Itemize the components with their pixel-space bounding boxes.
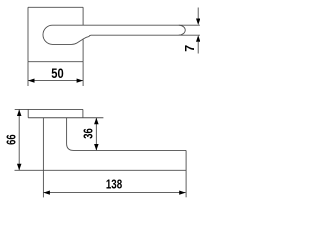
lever grip rounded left cap xyxy=(43,25,53,44)
svg-text:138: 138 xyxy=(106,177,122,191)
lever bar bottom edge with extension to left xyxy=(15,169,187,171)
dimension 36 line xyxy=(95,118,97,151)
lever top edge with extension line to 7-dim xyxy=(53,24,200,26)
dimension 7 leader shafts xyxy=(197,8,199,54)
rosette square right edge (interrupted by lever grip) xyxy=(82,7,84,61)
dimension 138 arrow right xyxy=(179,191,186,195)
rosette square bottom edge xyxy=(28,61,83,63)
svg-text:66: 66 xyxy=(5,134,19,145)
rosette square left edge xyxy=(27,7,29,61)
lever bar rounded end arc xyxy=(179,25,185,35)
dimension 50 arrow right xyxy=(77,79,84,83)
rosette top edge with extension to left xyxy=(15,108,83,110)
dimension 36 arrow up xyxy=(94,118,99,125)
lever bar right end edge with extension down xyxy=(185,150,187,197)
svg-text:50: 50 xyxy=(51,65,64,81)
dimension 138 arrow left xyxy=(43,191,50,195)
extension line from grip left end down to 138 dimension xyxy=(42,118,44,198)
rosette square top edge xyxy=(28,6,83,8)
dimension 7 arrow up xyxy=(196,35,200,42)
dimension 66 arrow down xyxy=(17,164,22,171)
dimension 50 arrow left xyxy=(28,79,35,83)
dimension 7 arrow down xyxy=(196,19,200,26)
dimension 66 arrow up xyxy=(17,109,22,116)
dimension 36 arrow down xyxy=(94,144,99,151)
rosette right edge xyxy=(82,109,84,117)
svg-text:7: 7 xyxy=(183,45,197,52)
dimension 138 line xyxy=(43,192,185,194)
dimension 50 line xyxy=(28,80,83,82)
lever neck left edge with fillet into bar top edge xyxy=(67,118,187,151)
rosette left edge xyxy=(27,109,29,117)
lever grip bottom edge, neck diagonal, bar bottom edge with extension xyxy=(53,35,200,44)
rosette bottom edge with extension to right xyxy=(28,117,103,119)
dimension 66 line xyxy=(18,109,20,170)
svg-text:36: 36 xyxy=(81,128,95,138)
dimension 50 extension lines xyxy=(28,62,83,86)
